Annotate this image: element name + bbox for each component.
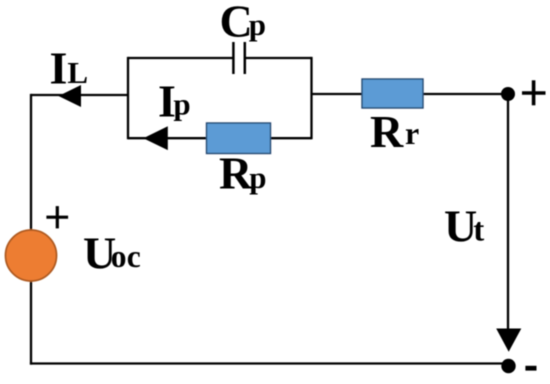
svg-text:R: R	[219, 148, 253, 199]
svg-text:p: p	[173, 87, 190, 122]
wire top-left horizontal (IL branch)	[31, 94, 128, 96]
wire parallel-box right edge	[310, 57, 312, 139]
label Rr	[370, 106, 419, 157]
capacitor Cp plates	[233, 42, 244, 74]
label Rp	[219, 148, 266, 199]
svg-text:L: L	[67, 55, 88, 90]
wire capacitor branch right	[245, 57, 312, 59]
plus sign at + terminal	[522, 80, 546, 105]
wire capacitor branch left	[128, 57, 233, 59]
svg-text:I: I	[50, 42, 68, 93]
label IL	[50, 42, 89, 93]
label Uoc	[83, 227, 141, 278]
resistor Rp	[207, 123, 271, 154]
wire left vertical	[30, 94, 32, 365]
svg-text:t: t	[473, 213, 484, 249]
wire main output (box to + node)	[312, 93, 509, 95]
svg-text:p: p	[249, 7, 266, 42]
plus sign at voltage source	[46, 206, 68, 228]
label Ut	[444, 200, 484, 251]
minus sign at - terminal	[525, 366, 536, 371]
voltage source Uoc	[6, 230, 57, 281]
wire bottom horizontal	[30, 362, 508, 364]
wire right vertical (Ut branch)	[507, 94, 509, 331]
current arrow IL	[59, 85, 82, 107]
wire parallel-box left edge	[127, 57, 129, 139]
label Ip	[158, 75, 191, 126]
svg-text:R: R	[370, 106, 404, 157]
node - terminal dot	[501, 359, 515, 373]
wire Rp branch	[128, 137, 312, 139]
current arrow Ip	[143, 126, 168, 150]
svg-text:oc: oc	[111, 239, 141, 274]
resistor Rr	[362, 79, 423, 108]
arrowhead down (Ut direction)	[496, 329, 521, 352]
node + terminal dot	[501, 87, 515, 101]
svg-text:p: p	[249, 160, 266, 195]
label Cp	[220, 0, 266, 46]
svg-text:r: r	[405, 115, 419, 151]
